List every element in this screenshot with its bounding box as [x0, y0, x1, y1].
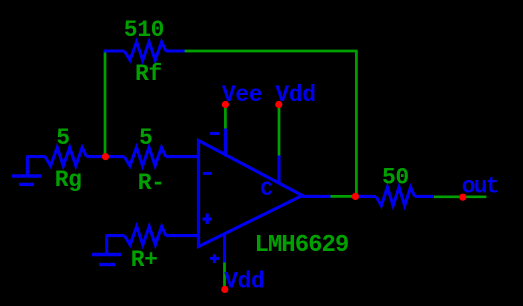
svg-text:Rg: Rg	[55, 167, 82, 193]
svg-text:out: out	[462, 174, 498, 200]
svg-text:50: 50	[382, 165, 409, 191]
svg-text:Vdd: Vdd	[224, 269, 264, 295]
svg-text:5: 5	[56, 125, 69, 151]
svg-text:R-: R-	[138, 170, 165, 196]
svg-text:510: 510	[124, 17, 164, 43]
svg-text:R+: R+	[131, 247, 158, 273]
svg-text:LMH6629: LMH6629	[255, 232, 349, 259]
svg-text:Vee: Vee	[222, 82, 262, 108]
svg-text:Rf: Rf	[135, 61, 162, 87]
svg-text:5: 5	[139, 125, 152, 151]
svg-text:C: C	[261, 179, 273, 202]
svg-text:Vdd: Vdd	[275, 82, 315, 108]
